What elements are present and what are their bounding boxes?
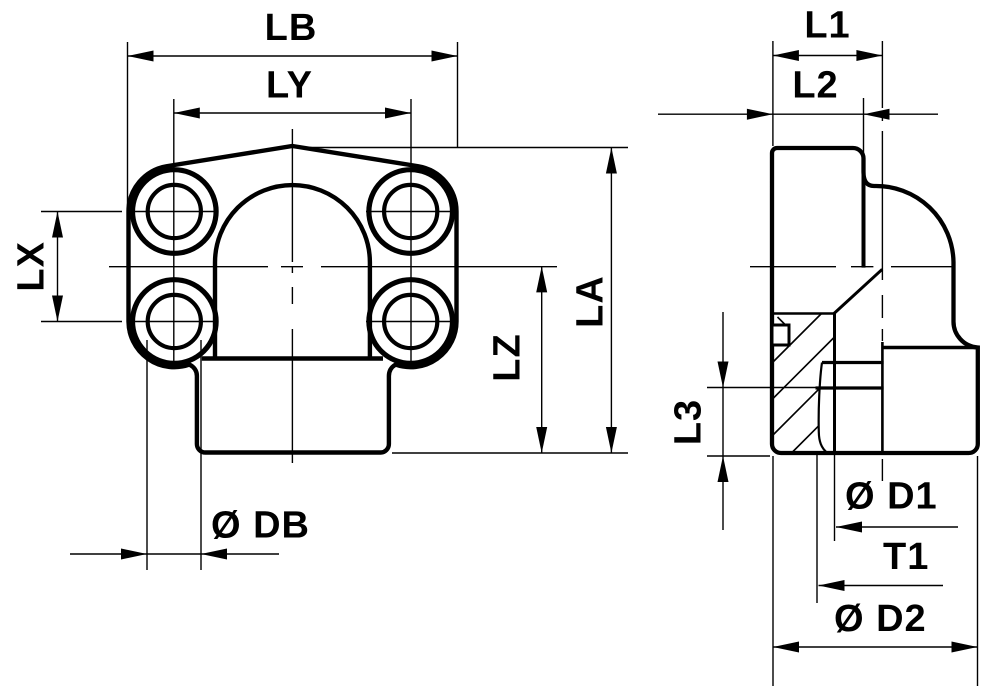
dimension L2 [863,98,865,177]
bolt spot-face bottom-left [133,280,217,364]
bolt hole top-right [384,185,437,238]
bore wall D1 [833,314,836,454]
flange plate back edge [862,160,866,268]
thread top line [774,312,834,314]
bolt column centerline left [173,99,175,363]
bolt row crosshair bottom-right [366,321,452,323]
bolt hole bottom-left [148,295,201,348]
dimension D2 [772,456,774,686]
bolt row crosshair top-left [132,211,218,213]
body outline [772,148,978,453]
svg-text:L3: L3 [668,399,710,445]
thread undercut chamfer stub [778,317,790,329]
svg-text:L2: L2 [792,65,838,107]
horizontal centerline [109,266,557,268]
bolt column centerline right [410,99,412,363]
dimension D1 [834,453,836,541]
bolt spot-face bottom-right [369,280,453,364]
svg-text:LB: LB [265,7,318,49]
bolt spot-face top-right [369,170,453,254]
svg-text:LZ: LZ [487,333,529,381]
dimension LB [127,42,129,208]
dimension L3 [707,387,816,389]
bolt hole top-left [148,185,201,238]
svg-text:LA: LA [570,275,612,328]
vertical centerline [291,129,293,463]
svg-text:Ø D1: Ø D1 [845,476,938,518]
hatching [772,314,835,454]
dimension LZ [541,266,543,453]
dimension DB [146,340,148,570]
central arch [215,185,370,358]
svg-text:Ø D2: Ø D2 [834,598,927,640]
svg-text:Ø DB: Ø DB [211,505,310,547]
inner cone diagonal [834,269,882,313]
dimension L1 [772,41,774,146]
dimension LX [41,211,122,213]
thread end line B [822,361,884,364]
bore vertical centerline [881,41,883,481]
tapered thread line [819,363,828,454]
bolt hole bottom-right [384,295,437,348]
thread gauge line C [816,386,884,389]
boss shoulder edge [882,346,977,350]
svg-text:T1: T1 [883,536,929,578]
bolt spot-face top-left [133,170,217,254]
dimension T1 [816,455,818,603]
dimension LY [174,112,411,114]
bolt row crosshair bottom-left [132,321,218,323]
port shoulder edge [202,356,383,360]
section axis edge [881,342,884,453]
svg-text:LY: LY [266,65,313,107]
bolt row crosshair top-right [366,211,452,213]
thread undercut square [774,325,790,345]
dimension LA [296,147,628,149]
svg-text:LX: LX [11,241,53,292]
svg-text:L1: L1 [804,5,850,47]
side horizontal centerline [750,266,955,268]
flange body outline [128,146,456,453]
